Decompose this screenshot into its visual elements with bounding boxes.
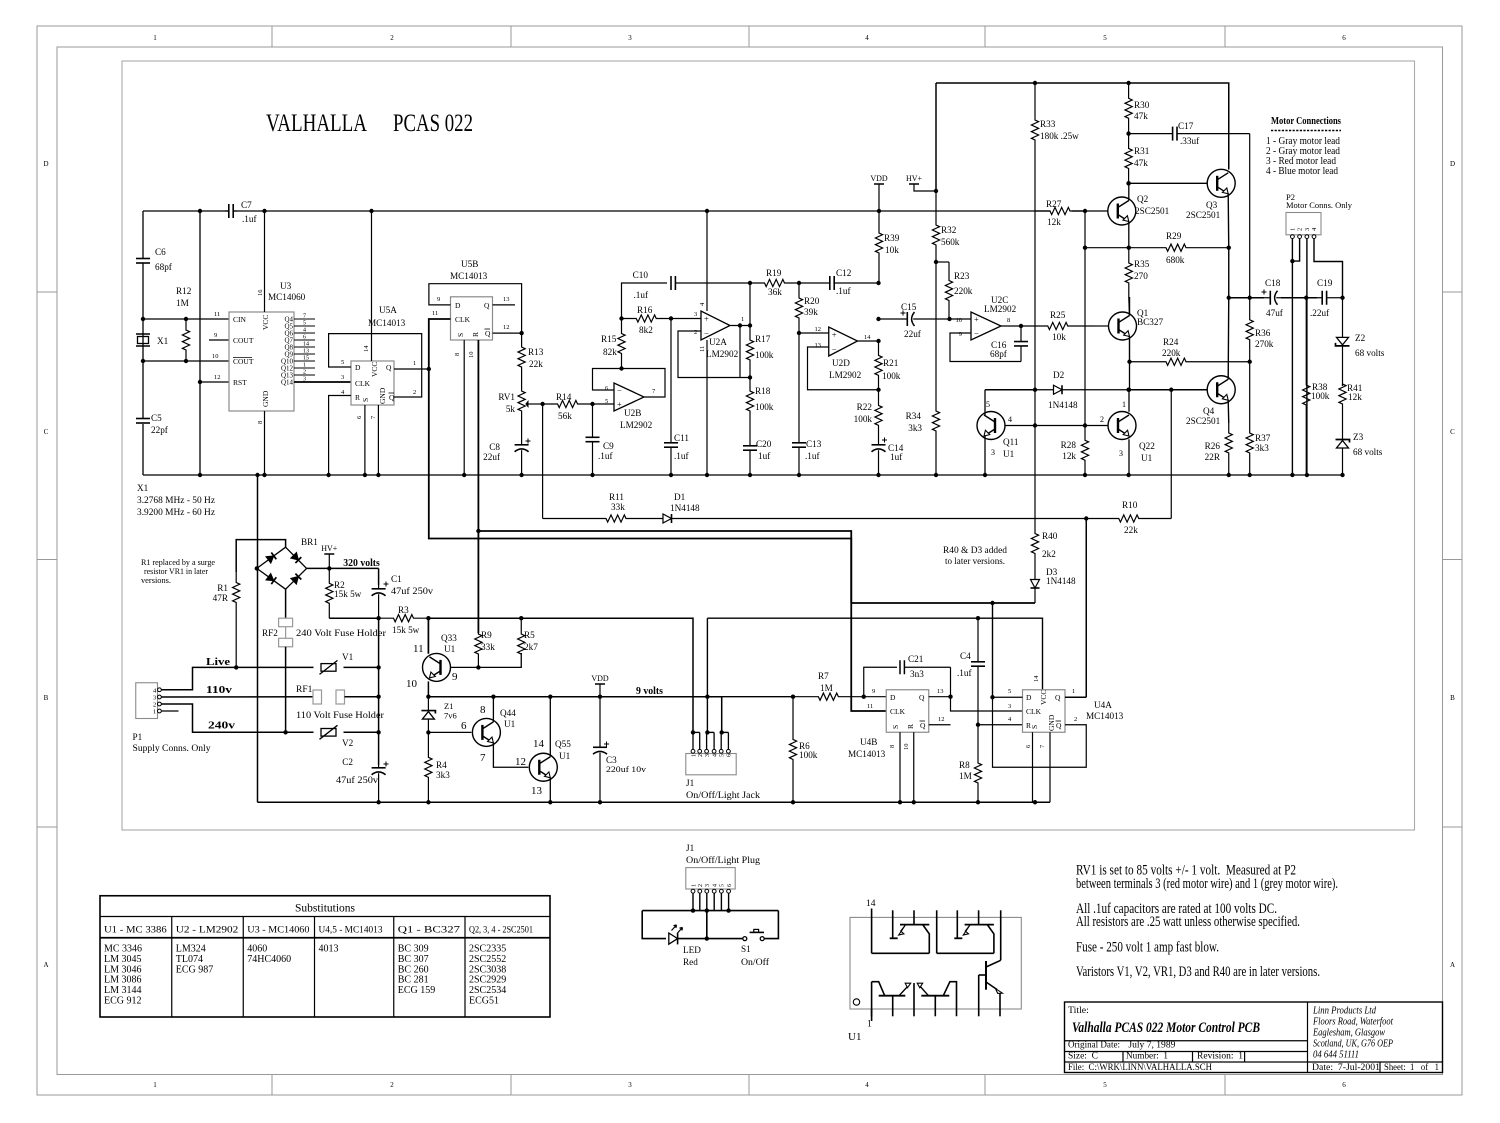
svg-text:.1uf: .1uf [242, 214, 257, 224]
svg-text:U2B: U2B [624, 408, 641, 418]
wire mid branch [706, 911, 708, 939]
resistor R9 [475, 633, 482, 667]
junction [184, 359, 188, 363]
junction [1126, 131, 1130, 135]
svg-text:22uf: 22uf [904, 329, 922, 339]
resistor R20 [795, 283, 802, 333]
svg-text:LM 3086: LM 3086 [104, 975, 142, 986]
junction [738, 323, 742, 327]
svg-text:D: D [890, 693, 896, 702]
IC U4A box [1023, 690, 1066, 733]
svg-text:5: 5 [720, 754, 726, 757]
wire to U4B D [864, 696, 887, 698]
svg-text:A: A [43, 961, 48, 969]
resistor R31 [1125, 134, 1132, 184]
svg-text:C7: C7 [241, 200, 252, 210]
svg-text:4: 4 [1008, 415, 1012, 424]
svg-text:U1: U1 [1141, 453, 1153, 463]
svg-text:All resistors are .25 watt unl: All resistors are .25 watt unless otherw… [1076, 914, 1300, 930]
svg-text:.1uf: .1uf [598, 451, 613, 461]
svg-text:MC 3346: MC 3346 [104, 944, 142, 955]
wire P2 pin1 [1291, 239, 1293, 476]
svg-text:MC14013: MC14013 [450, 271, 488, 281]
svg-text:LM2902: LM2902 [984, 304, 1017, 314]
junction [705, 730, 709, 734]
resistor R3 [379, 615, 429, 622]
junction [184, 317, 188, 321]
svg-text:6: 6 [727, 884, 733, 887]
capacitor C10 [622, 283, 668, 319]
svg-text:100k: 100k [882, 371, 901, 381]
svg-text:1: 1 [741, 316, 744, 323]
wire 9 volts rail [428, 696, 707, 698]
junction [476, 665, 480, 669]
junction [976, 800, 980, 804]
svg-text:14: 14 [864, 334, 871, 341]
svg-text:between terminals 3 (red motor: between terminals 3 (red motor wire) and… [1076, 876, 1338, 892]
wire U2A power pin4 [706, 211, 708, 311]
svg-text:100k: 100k [854, 414, 873, 424]
wire RST [200, 381, 229, 383]
svg-text:3.2768 MHz - 50 Hz: 3.2768 MHz - 50 Hz [137, 495, 215, 505]
junction [548, 800, 552, 804]
resistor R17 [746, 335, 753, 365]
connector J1 plug pins [691, 884, 733, 911]
svg-text:J1: J1 [686, 778, 695, 788]
junction [598, 695, 602, 699]
junction [1019, 324, 1023, 328]
capacitor C1 [378, 585, 380, 589]
transistor Q11 [977, 412, 1005, 440]
junction [976, 616, 980, 620]
svg-text:1: 1 [303, 363, 306, 369]
transistor Q4 [1207, 376, 1235, 404]
wire from RV1 node [542, 404, 544, 519]
svg-text:HV+: HV+ [906, 174, 923, 183]
fuse RF1 [313, 690, 322, 704]
wire Q33 emitter [427, 681, 429, 696]
svg-text:47uf 250v: 47uf 250v [336, 775, 378, 785]
svg-text:22R: 22R [1205, 452, 1221, 462]
svg-text:3: 3 [628, 1081, 632, 1089]
svg-text:R39: R39 [884, 233, 900, 243]
junction [948, 695, 952, 699]
schematic sheet frame [122, 61, 1415, 830]
wire Q55 emitter [549, 778, 551, 803]
svg-text:1uf: 1uf [758, 451, 771, 461]
svg-text:B: B [44, 694, 49, 702]
svg-text:14: 14 [533, 738, 545, 750]
svg-text:−: − [832, 344, 837, 354]
svg-text:Eaglesham, Glasgow: Eaglesham, Glasgow [1312, 1028, 1385, 1039]
junction [1126, 81, 1130, 85]
fuse RF2 [279, 618, 293, 627]
svg-text:10: 10 [406, 678, 418, 690]
svg-text:U2A: U2A [709, 337, 727, 347]
svg-text:Z1: Z1 [444, 701, 453, 711]
wire U2C out [1001, 325, 1021, 327]
wire D2 line [985, 389, 1035, 391]
svg-text:BC327: BC327 [1137, 317, 1163, 327]
svg-text:2: 2 [1100, 415, 1104, 424]
wire ground rail [143, 474, 1343, 476]
table body [104, 944, 506, 1007]
svg-text:1N4148: 1N4148 [1048, 400, 1078, 410]
wire Q3 base [1129, 182, 1208, 184]
wire to U2D plus [799, 332, 829, 334]
ground rail junctions [198, 473, 1345, 477]
resistor R32 [932, 211, 939, 262]
svg-text:ECG 912: ECG 912 [104, 996, 142, 1007]
junction [255, 566, 259, 570]
svg-text:4: 4 [303, 328, 306, 334]
junction [426, 616, 430, 620]
junction [691, 908, 695, 912]
junction [947, 317, 951, 321]
junction [1248, 296, 1252, 300]
resistor R11 [543, 515, 645, 522]
svg-text:15k 5w: 15k 5w [392, 625, 420, 635]
junction [976, 723, 980, 727]
junction [426, 695, 430, 699]
svg-text:5: 5 [341, 359, 344, 366]
svg-text:13: 13 [815, 342, 822, 349]
svg-text:22k: 22k [529, 359, 543, 369]
svg-text:8: 8 [454, 353, 461, 356]
svg-text:resistor VR1 in later: resistor VR1 in later [144, 567, 208, 576]
svg-text:2SC2552: 2SC2552 [469, 954, 506, 965]
svg-text:C2: C2 [342, 757, 353, 767]
wire U5A feedback Q2bar to D [329, 334, 422, 397]
connector J1 jack pins [691, 732, 733, 757]
wire 320v down to C1 [378, 568, 380, 585]
svg-text:R11: R11 [609, 492, 624, 502]
svg-text:12: 12 [503, 324, 510, 331]
svg-text:A: A [1450, 961, 1455, 969]
svg-text:versions.: versions. [141, 576, 171, 585]
resistor R27 [1035, 207, 1085, 214]
resistor R39 [875, 211, 882, 283]
svg-text:U1: U1 [444, 644, 456, 654]
wire U4A Q to line [1085, 519, 1087, 698]
connector P1 pins [153, 687, 161, 715]
svg-text:D: D [355, 363, 361, 372]
svg-text:Varistors V1, V2, VR1, D3 and: Varistors V1, V2, VR1, D3 and R40 are in… [1076, 964, 1320, 980]
svg-text:2: 2 [1297, 228, 1304, 231]
junction [548, 695, 552, 699]
svg-text:On/Off/Light Jack: On/Off/Light Jack [686, 790, 761, 800]
svg-text:VDD: VDD [870, 174, 888, 183]
svg-text:4: 4 [713, 884, 719, 887]
junction [1248, 360, 1252, 364]
svg-text:PCAS 022: PCAS 022 [393, 110, 473, 137]
svg-text:2: 2 [698, 884, 704, 887]
junction [519, 616, 523, 620]
svg-text:Q11: Q11 [1003, 437, 1019, 447]
wire jog to R23 [936, 261, 949, 263]
svg-text:.22uf: .22uf [1310, 308, 1330, 318]
wire U4B Qbar stub [929, 724, 951, 726]
svg-text:68 volts: 68 volts [1353, 447, 1383, 457]
wire Q3 emitter [1227, 194, 1230, 248]
wire U4A gnd pins [1032, 732, 1034, 802]
wire Q22 base [1035, 425, 1108, 427]
junction [1033, 388, 1037, 392]
junction [540, 402, 544, 406]
svg-text:Z2: Z2 [1355, 333, 1366, 343]
transistor Q55 [529, 753, 557, 781]
junction [726, 908, 730, 912]
svg-text:ECG 159: ECG 159 [398, 985, 436, 996]
diode D2 [1035, 389, 1054, 391]
svg-text:Q: Q [919, 693, 925, 702]
junction [1340, 296, 1344, 300]
IC U1 transistor C [871, 982, 873, 1017]
svg-text:1: 1 [691, 754, 697, 757]
svg-text:HV+: HV+ [321, 544, 338, 553]
resistor R4 [425, 732, 432, 802]
wire U4A D input [992, 603, 994, 697]
svg-text:D1: D1 [674, 492, 686, 502]
svg-text:270k: 270k [1255, 339, 1274, 349]
svg-text:+: + [704, 313, 709, 323]
svg-text:220k: 220k [954, 286, 973, 296]
svg-text:R: R [355, 393, 360, 402]
capacitor C15 [879, 318, 908, 320]
wire U2D out [858, 340, 879, 342]
svg-text:4 - Blue motor lead: 4 - Blue motor lead [1266, 166, 1338, 177]
wire U5A R ground [329, 396, 351, 476]
svg-text:S1: S1 [741, 944, 751, 954]
svg-text:U3: U3 [280, 281, 292, 291]
svg-text:2SC2929: 2SC2929 [469, 975, 506, 986]
junction [598, 800, 602, 804]
svg-text:RF1: RF1 [296, 685, 313, 695]
transistor Q3 [1207, 169, 1235, 197]
resistor R37 [1246, 362, 1253, 475]
junction [1126, 181, 1130, 185]
svg-text:2SC2501: 2SC2501 [1135, 206, 1170, 216]
svg-text:Q44: Q44 [500, 708, 516, 718]
svg-text:LM 3045: LM 3045 [104, 954, 142, 965]
svg-text:22pf: 22pf [151, 425, 169, 435]
wire 1085 column [1084, 211, 1086, 426]
wire U5B Q13 stub [493, 304, 515, 306]
svg-text:R22: R22 [857, 402, 873, 412]
capacitor C5 [136, 418, 150, 420]
svg-text:R34: R34 [906, 411, 922, 421]
svg-text:10: 10 [956, 317, 963, 324]
wire U4B R gnd [913, 732, 915, 802]
svg-text:11: 11 [867, 703, 873, 710]
svg-text:47uf: 47uf [1266, 308, 1284, 318]
svg-text:U4A: U4A [1094, 700, 1112, 710]
svg-text:C10: C10 [633, 270, 649, 280]
svg-text:3k3: 3k3 [436, 770, 450, 780]
svg-text:2: 2 [694, 329, 697, 336]
capacitor C21 [864, 667, 897, 696]
junction [912, 800, 916, 804]
wire R35 to Q1 [1128, 297, 1131, 316]
junction [748, 281, 752, 285]
svg-text:15: 15 [303, 356, 309, 362]
junction [877, 209, 881, 213]
capacitor C3 [599, 697, 601, 748]
svg-text:C20: C20 [756, 439, 772, 449]
wire S1 return [764, 911, 778, 939]
svg-text:RF2: RF2 [262, 628, 278, 638]
wire BR1 top to R1 [236, 540, 285, 572]
svg-text:Size: C: Size: C [1068, 1050, 1098, 1061]
svg-text:Scotland, UK, G76 OEP: Scotland, UK, G76 OEP [1313, 1039, 1393, 1050]
junction [1126, 388, 1130, 392]
svg-text:GND: GND [378, 387, 387, 404]
svg-text:3: 3 [1119, 449, 1123, 458]
wire [142, 319, 144, 361]
svg-text:C21: C21 [908, 654, 924, 664]
svg-text:Sheet: 1 of 1: Sheet: 1 of 1 [1384, 1062, 1439, 1073]
svg-text:11: 11 [699, 346, 706, 352]
svg-text:C17: C17 [1178, 121, 1194, 131]
junction [1083, 246, 1087, 250]
resistor R10 [1086, 515, 1171, 522]
wire U5B R reset line [477, 340, 479, 633]
svg-text:C5: C5 [151, 413, 162, 423]
resistor R29 [1129, 244, 1229, 251]
wire HV vertical [935, 83, 937, 191]
svg-text:to later versions.: to later versions. [945, 556, 1005, 566]
svg-text:LED: LED [683, 945, 701, 955]
wire U4A Q out [1065, 696, 1086, 698]
svg-text:BC 281: BC 281 [398, 975, 429, 986]
wire R29 line [1085, 247, 1129, 249]
resistor R1 [233, 572, 240, 667]
connector J1 plug box [686, 868, 735, 889]
svg-text:Q: Q [485, 329, 491, 338]
resistor R23 [945, 262, 952, 319]
wire RF2 to 240v [285, 647, 287, 733]
svg-text:Q1 - BC327: Q1 - BC327 [398, 925, 461, 935]
svg-text:C19: C19 [1317, 278, 1333, 288]
svg-text:GND: GND [261, 390, 270, 407]
junction [327, 566, 331, 570]
svg-text:VDD: VDD [591, 674, 609, 683]
wire U3 GND [264, 411, 266, 475]
junction [876, 388, 880, 392]
svg-text:74HC4060: 74HC4060 [247, 954, 291, 965]
svg-text:Fuse - 250 volt 1 amp fast blo: Fuse - 250 volt 1 amp fast blow. [1076, 940, 1219, 956]
svg-text:110 Volt Fuse Holder: 110 Volt Fuse Holder [296, 710, 384, 720]
svg-text:Motor Connections: Motor Connections [1271, 116, 1341, 127]
svg-text:5: 5 [986, 400, 990, 409]
zone row labels [43, 160, 1455, 969]
svg-text:LM2902: LM2902 [829, 370, 862, 380]
svg-text:C: C [1450, 428, 1455, 436]
svg-text:LM 3046: LM 3046 [104, 964, 142, 975]
svg-text:3: 3 [705, 754, 711, 757]
svg-text:U5A: U5A [379, 305, 397, 315]
svg-text:RV1: RV1 [498, 392, 515, 402]
svg-text:22k: 22k [1124, 525, 1138, 535]
svg-text:8: 8 [480, 704, 486, 716]
capacitor C14 [878, 441, 880, 445]
svg-text:9 volts: 9 volts [636, 686, 663, 697]
svg-text:X1: X1 [137, 483, 149, 493]
junction [283, 730, 287, 734]
svg-text:U2D: U2D [832, 358, 850, 368]
wire J1 tie 12 [693, 731, 700, 733]
wire [950, 318, 972, 320]
svg-text:7: 7 [303, 314, 306, 320]
svg-text:.1uf: .1uf [836, 286, 851, 296]
svg-text:Q4: Q4 [1203, 406, 1215, 416]
svg-text:36k: 36k [768, 287, 782, 297]
wire Q22 emitter [1128, 439, 1130, 475]
capacitor C20 [749, 437, 751, 446]
junction [797, 331, 801, 335]
transistor Q33 [423, 653, 451, 681]
connector J1 jack box [686, 754, 736, 775]
junction [1083, 209, 1087, 213]
resistor R25 [1021, 322, 1095, 329]
svg-text:Red: Red [683, 957, 698, 967]
svg-text:560k: 560k [941, 237, 960, 247]
svg-text:15k 5w: 15k 5w [334, 589, 362, 599]
svg-text:VALHALLA: VALHALLA [266, 110, 367, 137]
svg-text:5k: 5k [506, 404, 516, 414]
wire R3node to Q33 [427, 618, 429, 653]
svg-text:5: 5 [1008, 688, 1011, 695]
svg-text:GND: GND [1047, 714, 1056, 731]
junction [376, 695, 380, 699]
svg-text:3: 3 [1008, 703, 1011, 710]
svg-text:4: 4 [865, 34, 869, 42]
svg-text:S: S [1030, 725, 1039, 729]
svg-text:R5: R5 [524, 630, 535, 640]
svg-text:.1uf: .1uf [633, 290, 648, 300]
resistor R33 [1031, 83, 1038, 390]
svg-text:Linn Products Ltd: Linn Products Ltd [1312, 1006, 1377, 1017]
svg-text:R30: R30 [1134, 100, 1150, 110]
titleblock frame [1065, 1002, 1443, 1073]
junction [1127, 388, 1131, 392]
switch S1 [743, 937, 747, 941]
wire Q2 base [1085, 210, 1108, 212]
svg-text:12: 12 [815, 326, 822, 333]
svg-text:C9: C9 [603, 441, 614, 451]
wire Q44 base [428, 731, 471, 733]
svg-text:CLK: CLK [455, 315, 471, 324]
svg-text:2k7: 2k7 [524, 642, 538, 652]
junction [1304, 296, 1308, 300]
svg-text:680k: 680k [1166, 255, 1185, 265]
capacitor C17 [1129, 133, 1173, 135]
svg-text:2: 2 [698, 754, 704, 757]
svg-text:10k: 10k [1052, 332, 1066, 342]
resistor R7 [793, 693, 864, 700]
svg-text:9: 9 [452, 671, 458, 683]
junction [427, 367, 431, 371]
capacitor C19 [1317, 297, 1322, 299]
svg-text:July 7, 1989: July 7, 1989 [1128, 1039, 1175, 1050]
svg-text:Q2, 3, 4 - 2SC2501: Q2, 3, 4 - 2SC2501 [469, 925, 533, 935]
svg-text:LM 3144: LM 3144 [104, 985, 142, 996]
resistor R19 [750, 279, 799, 286]
svg-text:VCC: VCC [1039, 690, 1048, 705]
svg-text:12: 12 [214, 374, 221, 381]
wire Q4 base line [1129, 389, 1208, 391]
wire [678, 938, 743, 940]
